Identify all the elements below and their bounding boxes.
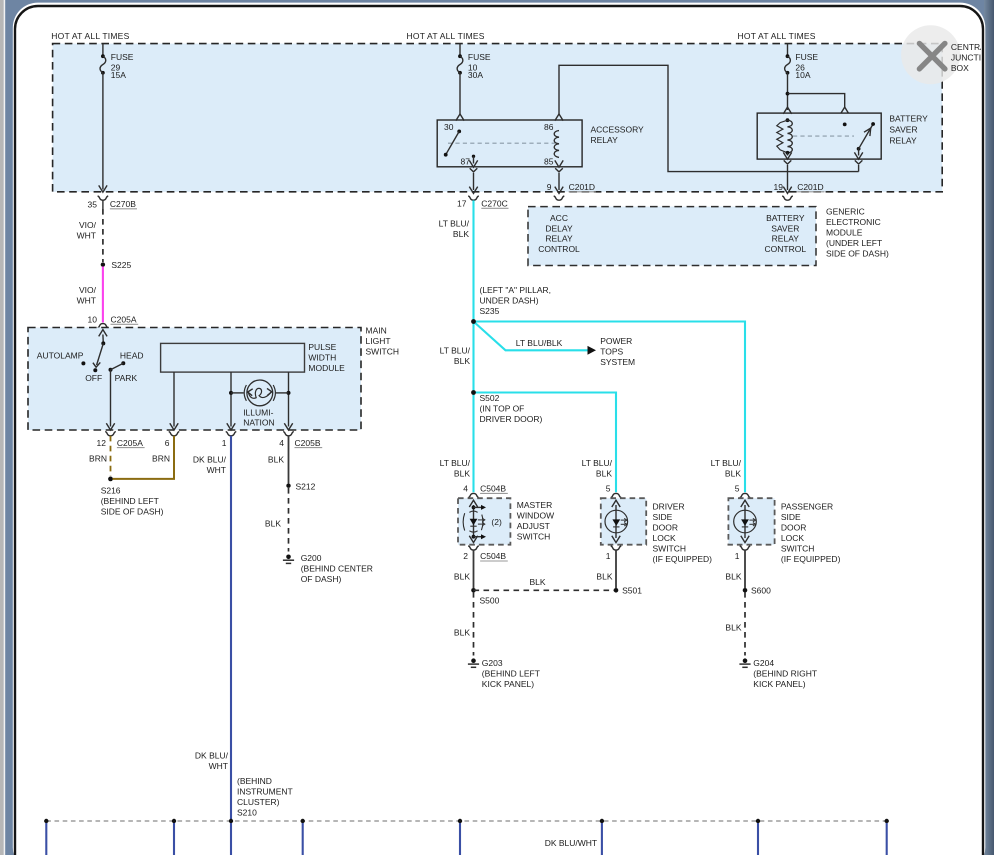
wire fuse F29 feed bbox=[102, 44, 104, 56]
wire BLK pin 2 to S500 bbox=[473, 550, 475, 588]
svg-text:BLK: BLK bbox=[454, 627, 470, 637]
wire pin 87 to C270C bbox=[473, 173, 475, 190]
wire fuse F26 feed bbox=[787, 44, 789, 56]
svg-text:BLK: BLK bbox=[596, 571, 612, 581]
svg-text:(IF EQUIPPED): (IF EQUIPPED) bbox=[781, 554, 841, 564]
switch arm to OFF bbox=[97, 343, 104, 365]
svg-text:(BEHIND LEFT: (BEHIND LEFT bbox=[101, 496, 159, 506]
svg-text:ACC: ACC bbox=[550, 213, 568, 223]
splice S225 bbox=[101, 262, 105, 266]
svg-text:FUSE: FUSE bbox=[111, 52, 134, 62]
connector C504B pin 4 bbox=[468, 493, 479, 497]
coil pin chevron below box bbox=[784, 160, 792, 164]
svg-text:MODULE: MODULE bbox=[308, 363, 345, 373]
svg-text:DRIVER DOOR): DRIVER DOOR) bbox=[480, 414, 543, 424]
svg-text:(BEHIND LEFT: (BEHIND LEFT bbox=[482, 669, 540, 679]
accessory relay U1 box bbox=[437, 120, 582, 167]
svg-text:SWITCH: SWITCH bbox=[517, 532, 551, 542]
connector pin 1 bbox=[226, 432, 237, 436]
svg-text:9: 9 bbox=[547, 182, 552, 192]
svg-text:LIGHT: LIGHT bbox=[366, 336, 391, 346]
coil pin bottom arrow bbox=[787, 153, 789, 156]
central junction box outline bbox=[53, 44, 943, 192]
svg-text:PULSE: PULSE bbox=[308, 342, 336, 352]
connector C205A pin 12 bbox=[105, 432, 116, 436]
svg-text:(UNDER LEFT: (UNDER LEFT bbox=[826, 238, 882, 248]
wire S502 to driver door switch bbox=[474, 393, 617, 493]
wire PWM to pin 4 bbox=[288, 372, 290, 426]
svg-text:S500: S500 bbox=[480, 596, 500, 606]
wire LT BLU/BLK C270C to S235 bbox=[472, 200, 474, 321]
svg-text:HOT AT ALL TIMES: HOT AT ALL TIMES bbox=[51, 31, 129, 41]
wire pin 86 up and over to battery saver relay switch bbox=[559, 65, 859, 171]
link HEAD to PARK bbox=[111, 363, 124, 370]
svg-text:MODULE: MODULE bbox=[826, 228, 863, 238]
label MASTER WINDOW ADJUST SWITCH bbox=[517, 500, 554, 541]
node on rail 4 bbox=[301, 819, 305, 823]
wire coil pin to C201D pin 19 bbox=[787, 165, 789, 190]
master window adjust switch box bbox=[458, 498, 510, 545]
svg-text:INSTRUMENT: INSTRUMENT bbox=[237, 786, 293, 796]
svg-text:LOCK: LOCK bbox=[653, 533, 676, 543]
pin 30 arrow bbox=[456, 114, 464, 121]
svg-text:30A: 30A bbox=[468, 70, 483, 80]
wire S235 to S502 bbox=[472, 322, 474, 393]
wire S235 to passenger door switch bbox=[474, 322, 746, 493]
wire F10 down to relay pin 30 bbox=[459, 73, 461, 114]
svg-text:C205A: C205A bbox=[117, 438, 143, 448]
svg-text:C205B: C205B bbox=[295, 438, 321, 448]
label CENTRAL JUNCTION BOX bbox=[951, 42, 994, 73]
svg-text:C201D: C201D bbox=[797, 182, 823, 192]
pin 86 arrow bbox=[555, 114, 563, 121]
svg-text:RELAY: RELAY bbox=[772, 234, 800, 244]
node junction on F26 wire bbox=[786, 92, 790, 96]
coil top node bbox=[786, 118, 790, 122]
svg-text:BOX: BOX bbox=[951, 63, 969, 73]
accessory relay coil bbox=[554, 131, 559, 158]
wire BRN dashed pin 12 to S216 bbox=[110, 436, 112, 476]
svg-text:DK BLU/: DK BLU/ bbox=[195, 750, 229, 760]
svg-text:(2): (2) bbox=[491, 517, 502, 527]
svg-text:OF DASH): OF DASH) bbox=[301, 574, 342, 584]
svg-text:(BEHIND CENTER: (BEHIND CENTER bbox=[301, 563, 373, 573]
label GENERIC ELECTRONIC MODULE bbox=[826, 207, 889, 259]
label S216 bbox=[101, 485, 164, 516]
wire F29 down to C270B bbox=[102, 73, 104, 190]
contact OFF bbox=[93, 368, 97, 372]
driver switch internal symbol bbox=[612, 500, 620, 507]
svg-text:C201D: C201D bbox=[569, 182, 595, 192]
pin 87 wire and arrow bbox=[473, 156, 475, 163]
svg-text:C504B: C504B bbox=[480, 551, 506, 561]
wire BLK dashed S212 to G200 bbox=[288, 488, 290, 552]
svg-text:RELAY: RELAY bbox=[591, 135, 619, 145]
battery saver relay internal dashed line bbox=[793, 135, 854, 137]
wire S235 to power tops system bbox=[474, 322, 589, 351]
svg-text:BLK: BLK bbox=[454, 356, 470, 366]
wire BLK dashed S500 to G203 bbox=[473, 592, 475, 656]
svg-text:HEAD: HEAD bbox=[120, 351, 144, 361]
svg-text:S210: S210 bbox=[237, 807, 257, 817]
svg-text:WHT: WHT bbox=[209, 761, 228, 771]
svg-text:85: 85 bbox=[544, 157, 554, 167]
svg-text:5: 5 bbox=[606, 484, 611, 494]
connector pin 6 bbox=[169, 432, 180, 436]
svg-text:LT BLU/: LT BLU/ bbox=[440, 346, 471, 356]
pulse width module box bbox=[161, 343, 305, 372]
wire BLK driver pin 1 to S501 bbox=[615, 550, 617, 588]
master switch internal symbol bbox=[469, 500, 477, 507]
svg-text:S212: S212 bbox=[296, 481, 316, 491]
node on rail 7 bbox=[756, 819, 760, 823]
svg-text:S502: S502 bbox=[480, 393, 500, 403]
passenger side door lock switch box bbox=[728, 498, 774, 545]
splice S502 bbox=[471, 390, 476, 395]
svg-text:G200: G200 bbox=[301, 553, 322, 563]
connector C205A pin 10 bbox=[98, 324, 109, 328]
label S235 bbox=[480, 285, 552, 316]
wire DK BLU/WHT pin 1 down to S210 bbox=[230, 436, 232, 821]
branch wire 6 bbox=[601, 823, 603, 855]
switch pivot node bbox=[101, 341, 105, 345]
node on rail 5 bbox=[458, 819, 462, 823]
splice S212 bbox=[286, 484, 290, 488]
svg-text:BRN: BRN bbox=[152, 453, 170, 463]
svg-text:S600: S600 bbox=[751, 586, 771, 596]
svg-text:CONTROL: CONTROL bbox=[765, 244, 807, 254]
svg-text:SAVER: SAVER bbox=[771, 223, 799, 233]
svg-text:SWITCH: SWITCH bbox=[366, 347, 400, 357]
svg-text:PARK: PARK bbox=[115, 373, 138, 383]
node on rail 6 bbox=[600, 819, 604, 823]
svg-text:BLK: BLK bbox=[453, 229, 469, 239]
svg-text:30: 30 bbox=[444, 122, 454, 132]
svg-text:S235: S235 bbox=[480, 306, 500, 316]
svg-text:BLK: BLK bbox=[454, 571, 470, 581]
svg-text:ILLUMI-: ILLUMI- bbox=[243, 407, 273, 417]
ground G200 bbox=[283, 555, 294, 564]
connector C504B pin 2 bbox=[468, 546, 479, 550]
arrow to power tops system bbox=[588, 346, 597, 355]
ground G203 bbox=[468, 658, 479, 667]
svg-text:WINDOW: WINDOW bbox=[517, 511, 554, 521]
wire F26 down to battery saver relay coil bbox=[787, 73, 789, 110]
pin 87 junction dot bbox=[472, 155, 475, 158]
svg-text:VIO/: VIO/ bbox=[79, 220, 97, 230]
svg-text:LT BLU/: LT BLU/ bbox=[582, 458, 613, 468]
connector C201D pin 9 cup bbox=[554, 196, 565, 200]
svg-text:5: 5 bbox=[735, 484, 740, 494]
svg-text:4: 4 bbox=[463, 484, 468, 494]
svg-text:BLK: BLK bbox=[268, 454, 284, 464]
svg-text:DOOR: DOOR bbox=[653, 523, 679, 533]
svg-text:C504B: C504B bbox=[480, 484, 506, 494]
label PULSE WIDTH MODULE bbox=[308, 342, 345, 373]
svg-text:CLUSTER): CLUSTER) bbox=[237, 797, 280, 807]
label DRIVER SIDE DOOR LOCK SWITCH bbox=[653, 502, 713, 565]
driver side door lock switch box bbox=[601, 498, 646, 545]
svg-text:S216: S216 bbox=[101, 485, 121, 495]
svg-text:C270C: C270C bbox=[481, 199, 507, 209]
svg-text:SYSTEM: SYSTEM bbox=[600, 357, 635, 367]
svg-text:G203: G203 bbox=[482, 658, 503, 668]
node on rail 1 bbox=[44, 819, 48, 823]
fuse F29 bbox=[100, 54, 106, 74]
svg-text:WHT: WHT bbox=[207, 465, 226, 475]
svg-text:86: 86 bbox=[544, 122, 554, 132]
splice S600 bbox=[743, 588, 748, 593]
label BATTERY SAVER RELAY CONTROL bbox=[765, 213, 807, 254]
svg-text:SWITCH: SWITCH bbox=[781, 544, 815, 554]
svg-text:19: 19 bbox=[774, 182, 784, 192]
passenger switch internal symbol bbox=[741, 500, 749, 507]
pin 85 arrow bbox=[555, 160, 563, 167]
switch pin chevron below box bbox=[855, 160, 863, 164]
label MAIN LIGHT SWITCH bbox=[366, 326, 400, 357]
wire pin 85 to C201D pin 9 bbox=[558, 173, 560, 190]
svg-text:BLK: BLK bbox=[725, 469, 741, 479]
close button bbox=[901, 25, 960, 84]
svg-text:PASSENGER: PASSENGER bbox=[781, 502, 833, 512]
connector C201D pin 19 cup bbox=[782, 196, 793, 200]
svg-text:1: 1 bbox=[222, 438, 227, 448]
svg-text:6: 6 bbox=[165, 438, 170, 448]
svg-text:SIDE: SIDE bbox=[653, 512, 673, 522]
branch wire 2 bbox=[173, 823, 175, 855]
svg-text:BLK: BLK bbox=[454, 469, 470, 479]
switch pin top node bbox=[843, 123, 847, 127]
bus wire dashed S210 rail bbox=[46, 820, 886, 822]
svg-text:2: 2 bbox=[463, 551, 468, 561]
svg-text:UNDER DASH): UNDER DASH) bbox=[480, 296, 539, 306]
svg-text:GENERIC: GENERIC bbox=[826, 207, 865, 217]
svg-text:HOT AT ALL TIMES: HOT AT ALL TIMES bbox=[407, 31, 485, 41]
splice S216 bbox=[108, 477, 113, 482]
svg-text:AUTOLAMP: AUTOLAMP bbox=[37, 351, 84, 361]
svg-text:SIDE OF DASH): SIDE OF DASH) bbox=[826, 249, 889, 259]
connector C205B pin 4 bbox=[283, 432, 294, 436]
wire S502 to master window switch bbox=[472, 393, 474, 493]
label G203 bbox=[482, 658, 540, 689]
battery saver relay switch arm bbox=[857, 147, 861, 151]
main light switch box bbox=[28, 328, 361, 431]
connector pin 1 passenger bbox=[740, 546, 751, 550]
svg-text:(IF EQUIPPED): (IF EQUIPPED) bbox=[653, 554, 713, 564]
svg-text:CONTROL: CONTROL bbox=[538, 244, 580, 254]
svg-text:FUSE: FUSE bbox=[795, 52, 818, 62]
svg-text:DELAY: DELAY bbox=[545, 223, 573, 233]
svg-text:15A: 15A bbox=[111, 70, 126, 80]
connector pin 5 driver bbox=[611, 493, 622, 497]
svg-text:POWER: POWER bbox=[600, 336, 632, 346]
svg-text:MASTER: MASTER bbox=[517, 500, 552, 510]
svg-text:LT BLU/: LT BLU/ bbox=[439, 219, 470, 229]
svg-text:LT BLU/BLK: LT BLU/BLK bbox=[516, 338, 563, 348]
wire BRN S216 to pin 6 bbox=[113, 436, 175, 479]
svg-text:NATION: NATION bbox=[243, 417, 274, 427]
wire BLK passenger pin 1 to S600 bbox=[744, 550, 746, 588]
svg-text:BLK: BLK bbox=[725, 571, 741, 581]
label G204 bbox=[753, 658, 817, 689]
svg-text:ELECTRONIC: ELECTRONIC bbox=[826, 217, 881, 227]
contact PARK bbox=[109, 368, 113, 372]
svg-text:(LEFT "A" PILLAR,: (LEFT "A" PILLAR, bbox=[480, 285, 552, 295]
branch wire 5 bbox=[459, 823, 461, 855]
svg-text:35: 35 bbox=[88, 200, 98, 210]
connector pin 1 driver bbox=[611, 546, 622, 550]
svg-text:KICK PANEL): KICK PANEL) bbox=[482, 679, 534, 689]
svg-text:C270B: C270B bbox=[110, 199, 136, 209]
svg-text:LT BLU/: LT BLU/ bbox=[440, 458, 471, 468]
branch wire 7 bbox=[757, 823, 759, 855]
splice S501 bbox=[614, 588, 619, 593]
pin 10 entry arrow bbox=[99, 330, 107, 337]
wire switch pin down to feed line bbox=[858, 165, 860, 172]
svg-text:BATTERY: BATTERY bbox=[766, 213, 805, 223]
svg-text:OFF: OFF bbox=[85, 373, 102, 383]
svg-text:WHT: WHT bbox=[77, 295, 96, 305]
svg-text:(BEHIND: (BEHIND bbox=[237, 776, 272, 786]
svg-text:BLK: BLK bbox=[596, 469, 612, 479]
svg-text:MAIN: MAIN bbox=[366, 326, 387, 336]
connector C270B bbox=[98, 196, 109, 200]
svg-text:BLK: BLK bbox=[530, 577, 546, 587]
svg-text:RELAY: RELAY bbox=[545, 234, 573, 244]
fuse F26 bbox=[785, 54, 791, 74]
branch wire 1 bbox=[45, 823, 47, 855]
svg-text:87: 87 bbox=[461, 157, 471, 167]
label PASSENGER SIDE DOOR LOCK SWITCH bbox=[781, 502, 841, 565]
coil pin arrow bbox=[783, 107, 791, 114]
illumination lamp L1 bbox=[229, 391, 233, 395]
wire BLK pin 4 to S212 bbox=[288, 436, 290, 484]
generic electronic module box bbox=[528, 207, 816, 266]
splice S235 bbox=[471, 319, 476, 324]
svg-text:1: 1 bbox=[606, 551, 611, 561]
wire BLK dashed S500 to S501 bbox=[474, 589, 617, 591]
svg-text:VIO/: VIO/ bbox=[79, 285, 97, 295]
switch pin bottom arrow bbox=[858, 149, 860, 156]
svg-text:S501: S501 bbox=[622, 586, 642, 596]
svg-text:SIDE: SIDE bbox=[781, 512, 801, 522]
svg-text:BLK: BLK bbox=[725, 622, 741, 632]
battery saver relay resistor bbox=[777, 120, 788, 153]
svg-text:FUSE: FUSE bbox=[468, 52, 491, 62]
wire PWM to pin 1 bbox=[230, 372, 232, 426]
svg-text:SAVER: SAVER bbox=[889, 125, 917, 135]
splice S210 bbox=[229, 819, 233, 823]
label S210 bbox=[237, 776, 293, 818]
branch wire 3 bbox=[230, 823, 232, 855]
branch wire 4 bbox=[302, 823, 304, 855]
svg-text:WIDTH: WIDTH bbox=[308, 352, 336, 362]
branch wire 8 bbox=[886, 823, 888, 855]
label POWER TOPS SYSTEM bbox=[600, 336, 635, 367]
svg-text:BATTERY: BATTERY bbox=[889, 114, 928, 124]
accessory relay switch contact bbox=[457, 130, 461, 134]
fuse F10 bbox=[457, 54, 463, 74]
svg-text:LT BLU/: LT BLU/ bbox=[711, 458, 742, 468]
svg-text:BRN: BRN bbox=[89, 453, 107, 463]
svg-text:10: 10 bbox=[88, 315, 98, 325]
wire PWM to pin 6 bbox=[173, 372, 175, 426]
svg-text:HOT AT ALL TIMES: HOT AT ALL TIMES bbox=[738, 31, 816, 41]
svg-text:(IN TOP OF: (IN TOP OF bbox=[480, 404, 525, 414]
svg-text:1: 1 bbox=[735, 551, 740, 561]
svg-text:C205A: C205A bbox=[111, 315, 137, 325]
svg-text:10A: 10A bbox=[795, 70, 810, 80]
wire branch to battery saver relay switch bbox=[788, 94, 845, 108]
contact AUTOLAMP bbox=[81, 361, 85, 365]
label ACC DELAY RELAY CONTROL bbox=[538, 213, 580, 254]
svg-text:KICK PANEL): KICK PANEL) bbox=[753, 679, 805, 689]
ground G204 bbox=[739, 658, 750, 667]
connector C270C bbox=[468, 196, 479, 200]
wire VIO/WHT dashed to S225 bbox=[102, 209, 104, 262]
svg-text:RELAY: RELAY bbox=[889, 135, 917, 145]
svg-text:G204: G204 bbox=[753, 658, 774, 668]
pin 87 chevron below box bbox=[470, 168, 478, 172]
wire BLK dashed S600 to G204 bbox=[744, 592, 746, 656]
pin 85 chevron below box bbox=[555, 168, 563, 172]
splice S500 bbox=[471, 588, 476, 593]
svg-text:ACCESSORY: ACCESSORY bbox=[591, 124, 645, 134]
label G200 bbox=[301, 553, 373, 584]
svg-text:LOCK: LOCK bbox=[781, 533, 804, 543]
connector pin 5 passenger bbox=[740, 493, 751, 497]
svg-text:BLK: BLK bbox=[265, 518, 281, 528]
node on rail 2 bbox=[172, 819, 176, 823]
svg-text:SIDE OF DASH): SIDE OF DASH) bbox=[101, 506, 164, 516]
svg-text:SWITCH: SWITCH bbox=[653, 544, 687, 554]
svg-text:ADJUST: ADJUST bbox=[517, 521, 550, 531]
accessory relay internal dashed line bbox=[448, 142, 556, 144]
svg-text:4: 4 bbox=[279, 438, 284, 448]
wire PARK to pin 12 bbox=[110, 370, 112, 427]
label S502 bbox=[480, 393, 543, 424]
svg-text:17: 17 bbox=[457, 199, 467, 209]
svg-text:DK BLU/WHT: DK BLU/WHT bbox=[545, 838, 597, 848]
svg-text:DOOR: DOOR bbox=[781, 523, 807, 533]
node on rail 8 bbox=[885, 819, 889, 823]
contact HEAD bbox=[121, 361, 125, 365]
svg-text:DK BLU/: DK BLU/ bbox=[193, 454, 227, 464]
svg-text:WHT: WHT bbox=[77, 230, 96, 240]
battery saver relay U2 box bbox=[757, 113, 881, 159]
battery saver relay coil bbox=[788, 120, 793, 153]
coil bottom node bbox=[786, 151, 790, 155]
svg-text:12: 12 bbox=[97, 438, 107, 448]
svg-text:S225: S225 bbox=[111, 260, 131, 270]
svg-text:DRIVER: DRIVER bbox=[653, 502, 685, 512]
wire VIO/WHT solid to C205A bbox=[102, 267, 104, 323]
svg-text:(BEHIND RIGHT: (BEHIND RIGHT bbox=[753, 669, 817, 679]
svg-text:TOPS: TOPS bbox=[600, 347, 623, 357]
wire fuse F10 feed bbox=[459, 44, 461, 56]
